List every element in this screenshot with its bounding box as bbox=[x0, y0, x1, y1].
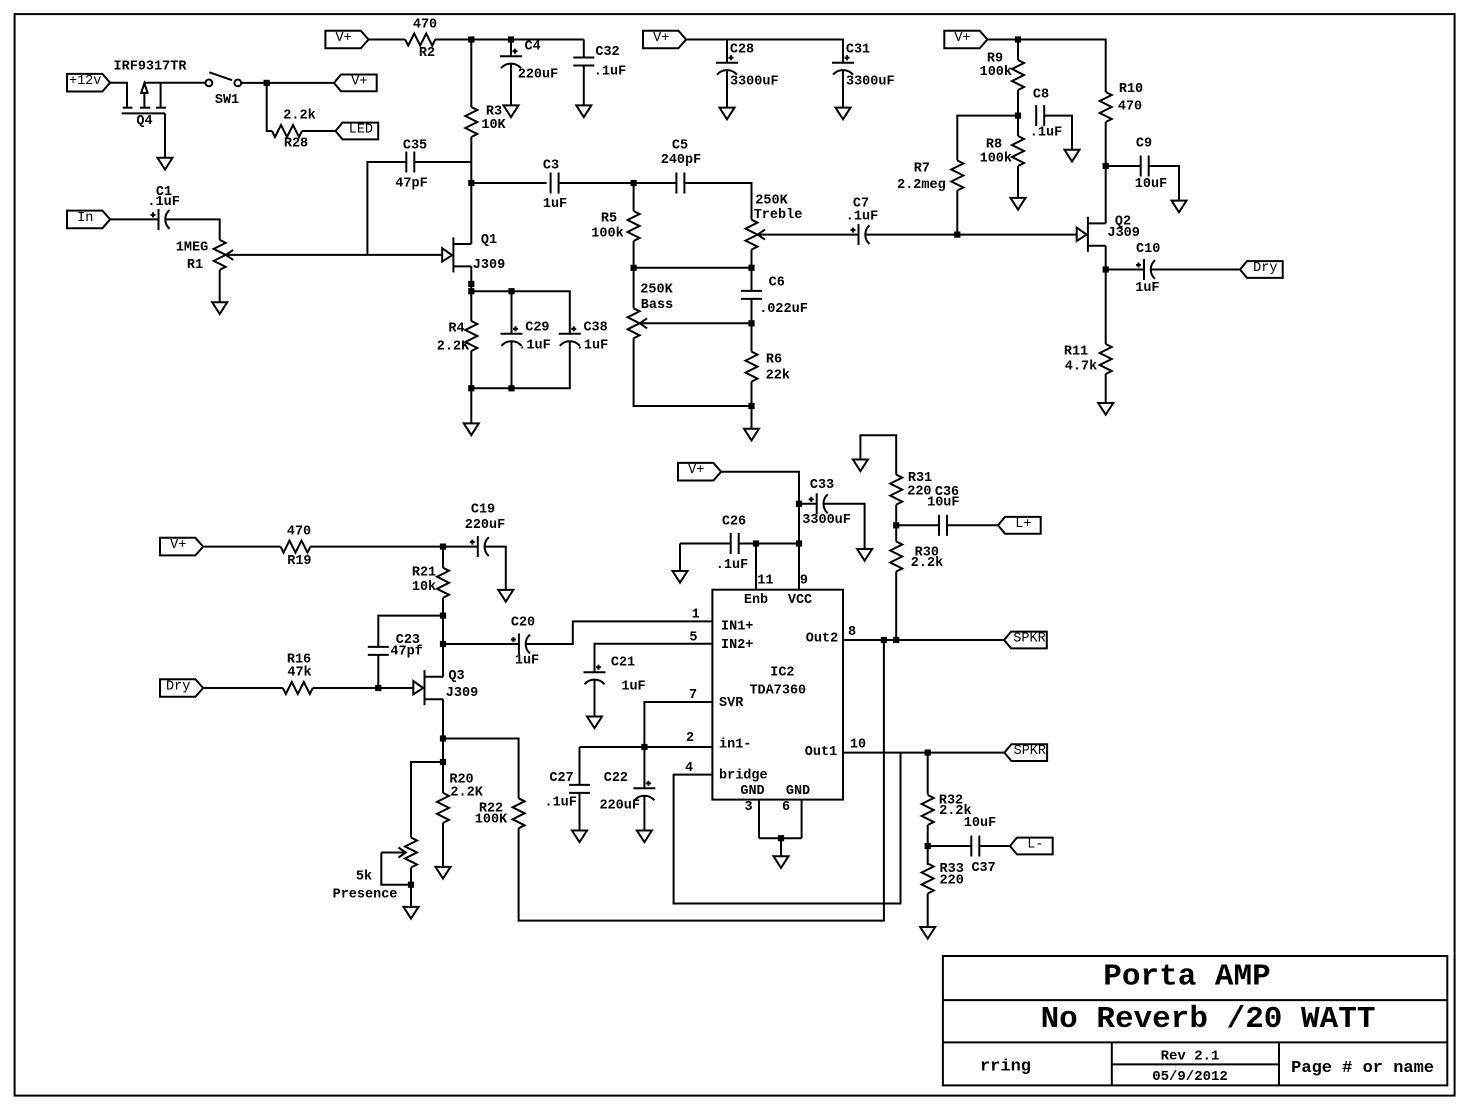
wire treble wiper to C7 bbox=[855, 234, 859, 236]
resistor R22 100K bbox=[513, 798, 525, 828]
svg-text:Enb: Enb bbox=[744, 593, 768, 608]
wire Q4 drain to SW1 bbox=[144, 82, 205, 84]
wire C37 to L- bbox=[979, 845, 1010, 847]
svg-text:11: 11 bbox=[757, 573, 773, 588]
wire bass bottom bbox=[634, 338, 752, 406]
junction R3/C35/C3 node bbox=[468, 180, 474, 186]
svg-text:05/9/2012: 05/9/2012 bbox=[1152, 1069, 1228, 1085]
wire source rail top bbox=[471, 291, 570, 334]
label C7 bbox=[853, 197, 869, 212]
label C38 bbox=[583, 321, 607, 336]
pin name VCC bbox=[788, 593, 812, 608]
label 47pF bbox=[395, 177, 427, 192]
ground below R4 bbox=[464, 423, 479, 435]
svg-text:R10: R10 bbox=[1119, 82, 1143, 97]
capacitor C19 220uF bbox=[470, 536, 489, 557]
label 1uF (C3) bbox=[543, 197, 567, 212]
port L- bbox=[1010, 838, 1053, 855]
wire R7 bottom lead bbox=[956, 191, 958, 235]
transistor Q2 J309 bbox=[1077, 217, 1106, 252]
wire node to R28 bbox=[267, 83, 272, 131]
svg-text:R21: R21 bbox=[412, 566, 436, 581]
pin 3 lead bbox=[758, 800, 760, 839]
svg-text:2.2K: 2.2K bbox=[450, 786, 483, 801]
label C21 bbox=[611, 656, 635, 671]
svg-text:IN1+: IN1+ bbox=[721, 620, 753, 635]
svg-text:.1uF: .1uF bbox=[716, 558, 748, 573]
label .1uF (C32) bbox=[594, 65, 626, 80]
potentiometer Treble 250K bbox=[746, 220, 856, 250]
wire R4 bottom bbox=[470, 351, 472, 423]
wire V+ to R10 corner bbox=[988, 40, 1106, 93]
wire C20 to pin 1 bbox=[526, 621, 713, 644]
wire Q2 source down bbox=[1105, 246, 1107, 344]
junction tone rail right bbox=[748, 265, 754, 271]
svg-text:Dry: Dry bbox=[1253, 261, 1277, 276]
svg-text:R7: R7 bbox=[914, 162, 930, 177]
label 100K (R22) bbox=[475, 813, 508, 828]
junction R5 top bbox=[631, 180, 637, 186]
svg-text:SPKR: SPKR bbox=[1013, 632, 1045, 647]
svg-text:V+: V+ bbox=[335, 31, 351, 46]
label R4 bbox=[448, 322, 464, 337]
svg-text:C8: C8 bbox=[1033, 88, 1049, 103]
svg-text:C31: C31 bbox=[846, 43, 870, 58]
svg-text:Out1: Out1 bbox=[805, 745, 837, 760]
pin number 1 bbox=[692, 608, 700, 623]
svg-text:10K: 10K bbox=[481, 118, 506, 133]
svg-text:10uF: 10uF bbox=[964, 816, 996, 831]
wire C22 to ground bbox=[643, 800, 645, 830]
resistor R32 2.2k bbox=[922, 795, 934, 825]
wire In to C1 bbox=[109, 218, 158, 220]
switch SW1 bbox=[206, 72, 242, 86]
label C3 bbox=[543, 159, 559, 174]
pin 11 lead bbox=[755, 544, 757, 590]
wire down to C4 bbox=[510, 40, 512, 57]
ground below C33 bbox=[857, 549, 872, 561]
capacitor C36 10uF bbox=[939, 515, 947, 536]
junction C33 bbox=[796, 501, 802, 507]
svg-text:Presence: Presence bbox=[333, 888, 398, 903]
wire node to R21 bbox=[442, 547, 444, 568]
capacitor C26 .1uF bbox=[731, 533, 739, 554]
svg-text:R1: R1 bbox=[187, 258, 203, 273]
ground below C22 bbox=[637, 831, 652, 843]
svg-text:.1uF: .1uF bbox=[576, 339, 608, 354]
label Q2 bbox=[1115, 215, 1131, 230]
wire C10 to Dry port bbox=[1151, 269, 1240, 271]
junction C23 top bbox=[440, 613, 446, 619]
label 1uF (C10) bbox=[1135, 281, 1159, 296]
svg-text:Rev 2.1: Rev 2.1 bbox=[1161, 1049, 1220, 1065]
svg-text:Out2: Out2 bbox=[806, 632, 838, 647]
wire treble bottom bbox=[751, 250, 753, 268]
svg-text:.1uF: .1uF bbox=[518, 339, 550, 354]
svg-text:No Reverb /20 WATT: No Reverb /20 WATT bbox=[1041, 1002, 1376, 1037]
gnd rail pins 3-6 bbox=[759, 837, 802, 839]
label Bass bbox=[641, 298, 673, 313]
ground below IC bbox=[774, 856, 789, 868]
label C35 bbox=[403, 139, 427, 154]
svg-text:C28: C28 bbox=[730, 43, 754, 58]
junction C29 top bbox=[508, 288, 514, 294]
transistor Q3 J309 bbox=[413, 670, 443, 705]
transistor Q1 J309 bbox=[442, 237, 471, 272]
wire C29 bottom lead bbox=[511, 346, 513, 389]
label R20 bbox=[449, 773, 473, 788]
capacitor C4 220uF bbox=[500, 49, 522, 68]
svg-text:470: 470 bbox=[287, 525, 311, 540]
pin 6 lead bbox=[801, 800, 803, 839]
svg-text:C10: C10 bbox=[1136, 242, 1160, 257]
wire C4 to ground bbox=[510, 68, 512, 105]
wire C27 top lead bbox=[579, 747, 581, 785]
svg-text:3: 3 bbox=[745, 800, 753, 815]
svg-text:240pF: 240pF bbox=[661, 153, 702, 168]
label R33 bbox=[940, 862, 964, 877]
capacitor C7 .1uF bbox=[851, 224, 870, 245]
label .1uF (C1) bbox=[147, 195, 179, 210]
pin name bridge bbox=[719, 769, 768, 784]
label C37 bbox=[971, 861, 995, 876]
label C27 bbox=[549, 771, 573, 786]
junction bass wiper/C6 bbox=[748, 320, 754, 326]
svg-text:1uF: 1uF bbox=[543, 197, 567, 212]
junction gnd pins bbox=[778, 835, 784, 841]
wire C7 to Q2 gate bbox=[865, 234, 1076, 236]
svg-text:In: In bbox=[77, 211, 93, 226]
svg-text:.1uF: .1uF bbox=[1030, 126, 1062, 141]
title No Reverb /20 WATT bbox=[1041, 1002, 1376, 1037]
svg-text:GND: GND bbox=[786, 784, 810, 799]
wire C1 to R1 top bbox=[166, 219, 220, 240]
label IC2 bbox=[770, 666, 794, 681]
ground below C19 bbox=[498, 590, 513, 602]
wire tone rail bbox=[634, 267, 752, 269]
label C8 bbox=[1033, 88, 1049, 103]
svg-text:1uF: 1uF bbox=[621, 680, 645, 695]
svg-text:SVR: SVR bbox=[719, 696, 744, 711]
svg-text:V+: V+ bbox=[653, 31, 669, 46]
wire R19 to C19 bbox=[311, 546, 478, 548]
svg-text:5k: 5k bbox=[356, 870, 372, 885]
svg-text:R2: R2 bbox=[419, 46, 435, 61]
svg-text:10: 10 bbox=[850, 738, 866, 753]
junction SVR/C22 bbox=[641, 744, 647, 750]
label R19 bbox=[287, 554, 311, 569]
svg-text:C22: C22 bbox=[604, 771, 628, 786]
capacitor C21 1uF bbox=[584, 665, 606, 685]
label C23 bbox=[396, 633, 420, 648]
capacitor C28 3300uF bbox=[716, 55, 738, 74]
wire Out2 to SPKR bbox=[843, 639, 1004, 641]
label R3 bbox=[486, 105, 502, 120]
junction C20/drain bbox=[440, 641, 446, 647]
resistor R3 10K bbox=[465, 107, 477, 137]
wire R11 to ground bbox=[1105, 374, 1107, 403]
label R8 bbox=[986, 138, 1002, 153]
label 100k (R8) bbox=[980, 152, 1012, 167]
ground below R8 bbox=[1011, 198, 1026, 210]
svg-text:3300uF: 3300uF bbox=[802, 513, 851, 528]
capacitor C10 1uF bbox=[1136, 259, 1155, 280]
wire R8 to ground bbox=[1017, 166, 1019, 198]
wire C29 top lead bbox=[511, 291, 513, 334]
wire C32 to ground bbox=[583, 66, 585, 106]
potentiometer R1 1MEG bbox=[214, 240, 443, 270]
svg-text:Dry: Dry bbox=[166, 680, 190, 695]
label .022uF bbox=[759, 302, 808, 317]
label C26 bbox=[722, 515, 746, 530]
label 470 (R19) bbox=[287, 525, 311, 540]
wire presence bottom bbox=[410, 868, 412, 907]
wire C36 left lead bbox=[896, 524, 939, 526]
junction R8/C8 bbox=[1015, 113, 1021, 119]
svg-text:Bass: Bass bbox=[641, 298, 673, 313]
svg-text:Page # or name: Page # or name bbox=[1291, 1059, 1434, 1078]
port V+ (switch) bbox=[334, 74, 377, 91]
junction C9 bbox=[1103, 163, 1109, 169]
wire Out1 to SPKR bbox=[843, 752, 1004, 754]
label R32 bbox=[939, 794, 963, 809]
junction R19/R21/C19 bbox=[440, 544, 446, 550]
junction R31/R30/C36 bbox=[893, 522, 899, 528]
label 220 (R33) bbox=[940, 873, 964, 888]
svg-text:220uF: 220uF bbox=[465, 518, 506, 533]
svg-text:9: 9 bbox=[800, 573, 808, 588]
pin name GND (6) bbox=[786, 784, 810, 799]
svg-text:5: 5 bbox=[689, 631, 697, 646]
svg-text:SW1: SW1 bbox=[215, 93, 239, 108]
junction C23/gate bbox=[375, 685, 381, 691]
svg-text:R19: R19 bbox=[287, 554, 311, 569]
wire R5 bottom bbox=[633, 241, 635, 268]
wire gnd pins lead bbox=[780, 838, 782, 856]
svg-text:R8: R8 bbox=[986, 138, 1002, 153]
label R31 bbox=[908, 471, 932, 486]
svg-text:C21: C21 bbox=[611, 656, 635, 671]
label .1uF (C29) bbox=[518, 339, 550, 354]
svg-text:470: 470 bbox=[413, 18, 437, 33]
label C10 bbox=[1136, 242, 1160, 257]
port Dry (input) bbox=[160, 679, 203, 697]
svg-text:GND: GND bbox=[740, 784, 764, 799]
label R28 bbox=[284, 137, 308, 152]
wire C9 left lead bbox=[1106, 165, 1141, 167]
junction Out2/feedback bbox=[881, 637, 887, 643]
port LED bbox=[336, 123, 379, 140]
ground below C31 bbox=[836, 108, 851, 120]
label 10uF (C37) bbox=[964, 816, 996, 831]
svg-text:250K: 250K bbox=[755, 194, 788, 209]
label 100k (R9) bbox=[980, 65, 1012, 80]
svg-text:C19: C19 bbox=[471, 503, 495, 518]
resistor R2 470 bbox=[405, 34, 435, 46]
ground below R33 bbox=[920, 927, 935, 939]
svg-text:C32: C32 bbox=[595, 45, 619, 60]
svg-text:C5: C5 bbox=[672, 139, 688, 154]
label J309 (Q3) bbox=[446, 686, 478, 701]
label 10uF (C36) bbox=[927, 496, 959, 511]
port V+ (top rail) bbox=[325, 31, 368, 49]
wire V+ to C33 node bbox=[721, 472, 799, 544]
label Q1 bbox=[481, 233, 497, 248]
title 05/9/2012 bbox=[1152, 1069, 1228, 1085]
label R2 bbox=[419, 46, 435, 61]
capacitor C5 240pF bbox=[676, 173, 684, 194]
svg-text:47pf: 47pf bbox=[390, 645, 422, 660]
wire V+ to R2 bbox=[369, 39, 406, 41]
capacitor C32 .1uF bbox=[573, 58, 594, 66]
ground below C26 bbox=[673, 571, 688, 583]
wire C27 rail bbox=[580, 746, 713, 748]
ground below R6 bbox=[744, 429, 759, 441]
label R16 bbox=[287, 653, 311, 668]
label 22k bbox=[766, 369, 790, 384]
wire C10 left lead bbox=[1106, 269, 1144, 271]
wire C35 left to gate bbox=[367, 162, 406, 255]
wire C26 to pin11 node bbox=[739, 543, 799, 545]
label 250K (treble) bbox=[755, 194, 788, 209]
label .1uF (C38) bbox=[576, 339, 608, 354]
potentiometer Presence 5k bbox=[381, 838, 417, 868]
svg-text:LED: LED bbox=[349, 123, 373, 138]
svg-text:C35: C35 bbox=[403, 139, 427, 154]
wire R2 to C32 lead bbox=[435, 39, 584, 41]
label R10 bbox=[1119, 82, 1143, 97]
label C28 bbox=[730, 43, 754, 58]
label Q3 bbox=[448, 669, 464, 684]
label 1uF (C20) bbox=[515, 654, 539, 669]
wire R1 bottom to ground bbox=[219, 270, 221, 302]
pin 9 lead bbox=[798, 544, 800, 590]
wire R3 to Q1 drain node bbox=[470, 137, 472, 244]
svg-text:J309: J309 bbox=[446, 686, 478, 701]
pin name Enb bbox=[744, 593, 768, 608]
wire R9 to R8 bbox=[1017, 90, 1019, 136]
wire C5 to treble top bbox=[684, 183, 751, 220]
svg-text:C4: C4 bbox=[524, 39, 540, 54]
label .1uF (C7) bbox=[846, 210, 878, 225]
pin name GND (3) bbox=[740, 784, 764, 799]
pin name SVR bbox=[719, 696, 744, 711]
port V+ (R19) bbox=[160, 538, 203, 556]
wire R31 top to ground bbox=[860, 435, 896, 474]
wire node to C3 bbox=[471, 182, 546, 184]
capacitor C38 .1uF bbox=[559, 326, 581, 346]
capacitor C3 1uF bbox=[551, 173, 559, 194]
svg-text:Porta AMP: Porta AMP bbox=[1103, 960, 1270, 995]
junction SW1/V+/R28 bbox=[264, 80, 270, 86]
ground below R11 bbox=[1098, 403, 1113, 415]
svg-text:C6: C6 bbox=[769, 276, 785, 291]
wire to R22 bbox=[443, 739, 519, 799]
label J309 (Q1) bbox=[473, 258, 505, 273]
label 5k bbox=[356, 870, 372, 885]
capacitor C9 10uF bbox=[1141, 156, 1149, 177]
label 470 (R10) bbox=[1118, 100, 1142, 115]
title Porta AMP bbox=[1103, 960, 1270, 995]
wire R2 node down to R3 bbox=[470, 40, 472, 108]
junction R7 bottom bbox=[954, 232, 960, 238]
svg-text:C33: C33 bbox=[810, 478, 834, 493]
capacitor C8 .1uF bbox=[1036, 105, 1044, 126]
wire C19 to ground bbox=[485, 547, 506, 590]
svg-text:.1uF: .1uF bbox=[594, 65, 626, 80]
label 3300uF (C28) bbox=[730, 75, 779, 90]
svg-text:4.7k: 4.7k bbox=[1065, 360, 1097, 375]
ground below C9 bbox=[1172, 201, 1187, 213]
pin name IN1+ bbox=[721, 620, 753, 635]
svg-text:7: 7 bbox=[689, 688, 697, 703]
junction Q1 source b bbox=[468, 288, 474, 294]
svg-text:C26: C26 bbox=[722, 515, 746, 530]
svg-text:C29: C29 bbox=[525, 321, 549, 336]
svg-text:bridge: bridge bbox=[719, 769, 768, 784]
wire C28 lead bbox=[726, 40, 728, 63]
svg-text:TDA7360: TDA7360 bbox=[749, 684, 806, 699]
resistor R8 100k bbox=[1012, 136, 1024, 166]
wire R21 to Q3 node bbox=[442, 598, 444, 677]
resistor R9 100k bbox=[1012, 60, 1024, 90]
pin number 9 bbox=[800, 573, 808, 588]
label C6 bbox=[769, 276, 785, 291]
wire SVR to rail bbox=[644, 702, 712, 747]
wire R22 to Out2 feedback bbox=[519, 640, 884, 921]
wire presence branch bbox=[411, 762, 443, 838]
svg-text:10uF: 10uF bbox=[927, 496, 959, 511]
wire R28 to LED port bbox=[302, 130, 336, 132]
label 2.2k (R28) bbox=[283, 109, 315, 124]
svg-text:.1uF: .1uF bbox=[846, 210, 878, 225]
wire +12v to Q4 source bbox=[109, 83, 127, 108]
resistor R21 10k bbox=[437, 568, 449, 598]
label C31 bbox=[846, 43, 870, 58]
label R30 bbox=[915, 546, 939, 561]
wire R32 to C37 node bbox=[927, 825, 929, 865]
ground below C27 bbox=[572, 831, 587, 843]
label R21 bbox=[412, 566, 436, 581]
wire R6 bottom bbox=[751, 382, 753, 429]
capacitor C6 .022uF bbox=[741, 291, 762, 299]
wire C36 to L+ bbox=[947, 524, 998, 526]
junction pin 11 bbox=[753, 540, 759, 546]
wire C37 left lead bbox=[928, 845, 972, 847]
wire Out1 to R32 bbox=[927, 753, 929, 795]
ground below C32 bbox=[576, 105, 591, 117]
pin number 6 bbox=[782, 800, 790, 815]
junction R9 top bbox=[1015, 36, 1021, 42]
label .1uF (C8) bbox=[1030, 126, 1062, 141]
wire C33 to ground bbox=[824, 504, 865, 549]
label 220uF (C22) bbox=[599, 799, 640, 814]
port V+ (C28 rail) bbox=[643, 31, 686, 49]
svg-text:J309: J309 bbox=[473, 258, 505, 273]
wire C26 left to ground bbox=[679, 544, 681, 572]
svg-text:C38: C38 bbox=[583, 321, 607, 336]
wire bass top lead bbox=[633, 268, 635, 309]
svg-text:R5: R5 bbox=[601, 212, 617, 227]
label 3300uF (C31) bbox=[846, 75, 895, 90]
capacitor C22 220uF bbox=[633, 781, 655, 801]
wire R7 top to R8 node bbox=[957, 116, 1018, 161]
port In bbox=[67, 211, 110, 229]
svg-text:220: 220 bbox=[940, 873, 964, 888]
svg-text:10uF: 10uF bbox=[1135, 177, 1167, 192]
capacitor C31 3300uF bbox=[832, 55, 854, 74]
label 1uF (C21) bbox=[621, 680, 645, 695]
